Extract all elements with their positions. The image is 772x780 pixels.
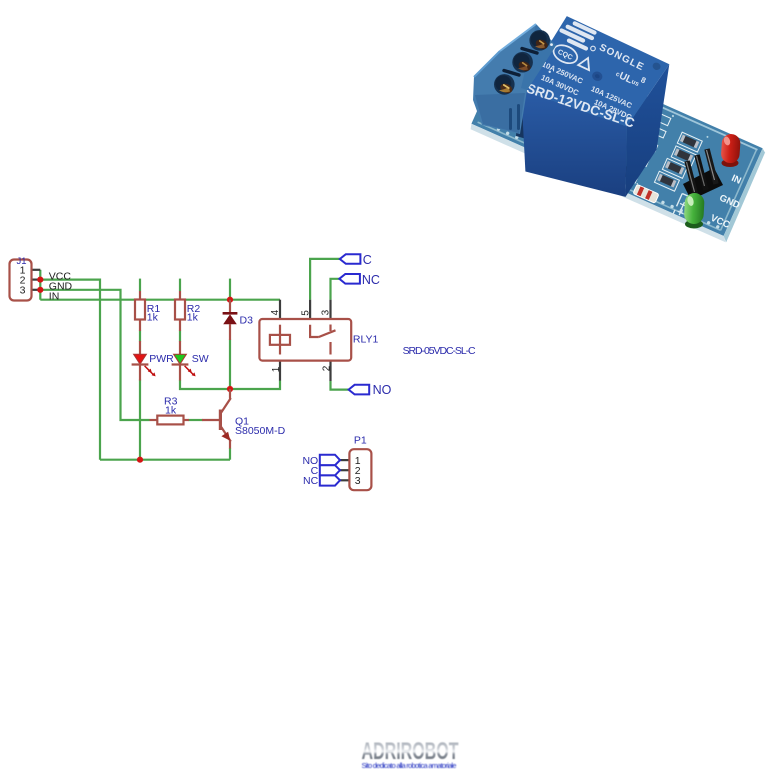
svg-text:S8050M-D: S8050M-D [235,425,286,437]
photo relay left dark face [516,88,530,140]
wire D3 bottom to mid rail [229,340,231,390]
svg-text:3: 3 [355,475,361,487]
songle S logo stripes [556,17,597,52]
photo PCB board top [471,36,763,238]
wire IN net from J1 to relay pin4 [40,299,280,301]
svg-text:1k: 1k [147,312,159,324]
svg-text:PWR: PWR [149,353,174,365]
diode D3 [223,300,253,340]
svg-text:DX: DX [578,190,617,218]
flag C (P1) [320,465,340,475]
photo diode component with red stripes [633,184,659,203]
svg-text:NC: NC [303,475,319,487]
glint specks [550,43,553,46]
svg-text:IN: IN [49,290,60,302]
triangle logo [578,56,593,71]
flag NO [349,383,392,397]
svg-text:SW: SW [192,353,209,365]
svg-text:4: 4 [270,309,281,315]
svg-text:NO: NO [373,383,392,397]
photo relay top face [521,16,669,126]
photo relay right face [626,64,670,197]
wire relay pin2 to NO flag [331,381,349,390]
photo PCB side edges [471,124,726,243]
wire NC flag to relay pin3 [331,279,340,300]
svg-text:1: 1 [271,366,282,372]
screw hole 1 [529,30,550,51]
svg-text:2: 2 [322,365,333,371]
svg-text:RLY1: RLY1 [353,333,379,345]
wire R3 to Q1 base [189,419,203,421]
relay RLY1 [259,300,378,381]
flag C [340,253,372,267]
flag NO (P1) [320,455,340,466]
junction D3/rail [227,386,233,392]
wire R1 to PWR led [139,331,141,342]
junction PWR/bottom rail [137,457,143,463]
svg-text:Sito dedicato alla robotica am: Sito dedicato alla robotica amatoriale [362,761,457,770]
svg-text:3: 3 [321,309,332,315]
resistor R3 [150,396,190,425]
wire VCC net from J1 pin2 down left side [40,280,100,460]
LED SW (green) [172,341,209,381]
LED PWR (red) [132,341,175,381]
wire R1 top stub [139,279,141,291]
wire R2 top stub [179,279,181,291]
SCHEMATIC [10,253,477,490]
flag NC [339,273,380,287]
wire bottom rail [100,459,230,461]
junction J1 pin3 [37,287,43,293]
photo PCB pad rows [487,123,720,229]
svg-text:1k: 1k [187,312,199,324]
wire GND net from J1 pin3 to R3 [40,290,149,420]
wire D3 top stub [229,279,231,300]
wire Q1 emitter to rail [229,448,231,460]
junction J1 pin2 [37,277,43,283]
wire mid rail to relay pin1 [180,380,280,389]
wire C flag to relay pin5 [310,259,340,300]
photo green LED [684,193,705,229]
photo relay top markings [525,17,662,131]
wire R2 to SW led [179,331,181,342]
junction IN/D3 [227,297,233,303]
photo SOT23 transistor [615,163,632,178]
dimples [591,70,604,83]
LOGO [362,738,459,770]
svg-text:C: C [363,253,372,267]
CQC oval logo [551,42,580,67]
flag NC (P1) [320,475,340,485]
photo red LED [720,133,740,167]
svg-text:NC: NC [362,273,380,287]
photo pin header [683,149,723,200]
photo SMD parts on board [607,105,761,237]
transistor Q1 [202,389,286,449]
resistor R1 [135,291,160,331]
svg-text:3: 3 [20,285,26,297]
wire PWR led down to rail [139,380,141,460]
terminal slots [522,49,537,54]
svg-text:5: 5 [301,310,312,316]
connector P1 [340,434,372,490]
svg-text:SRD-05VDC-SL-C: SRD-05VDC-SL-C [403,345,476,357]
photo terminal block [473,24,556,134]
photo mask above terminal block [455,0,536,100]
photo relay front face [521,90,627,197]
connector J1 [10,256,41,301]
svg-text:P1: P1 [354,434,367,446]
wire J1 riser [39,270,41,300]
PHOTO: relay module [455,0,765,242]
svg-text:1k: 1k [165,405,177,417]
screw hole 2 [512,52,533,73]
resistor R2 [175,291,200,331]
screw hole 3 [494,74,515,95]
svg-text:D3: D3 [240,314,254,326]
